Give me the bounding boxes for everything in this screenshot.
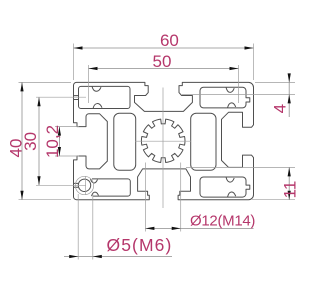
profile outer contour with T-slots (74, 82, 254, 199)
thin lines: centerlines (75, 88, 191, 209)
10.2 (58, 127, 61, 136)
bore centerlines (135, 140, 191, 142)
50 ext (88, 65, 90, 103)
dim line 40 (21, 82, 23, 199)
svg-text:Ø12(M14): Ø12(M14) (190, 212, 255, 229)
cavity C top-right with thread notch (200, 87, 250, 108)
svg-text:Ø5(M6): Ø5(M6) (107, 235, 173, 255)
cavity D bottom-right with thread notch (200, 177, 250, 197)
40 ext (19, 81, 72, 83)
keyway slit A (74, 96, 79, 100)
dim line 11 (288, 167, 290, 199)
cavity B bottom-left screw channel (78, 179, 90, 191)
svg-text:60: 60 (160, 31, 179, 50)
M6 thread circle bottom-left (75, 176, 93, 194)
10.2 ext (55, 126, 79, 128)
30 (37, 97, 40, 106)
11 ext (186, 166, 295, 168)
svg-text:11: 11 (281, 181, 300, 199)
dim line 50 (89, 68, 239, 70)
keyway slit B (74, 183, 79, 187)
arrows (20, 46, 290, 258)
left tall cavity (114, 113, 136, 170)
central bore M14 castellated (141, 119, 185, 162)
dim line O5(M6) (64, 256, 172, 258)
dim line 30 (38, 97, 40, 185)
boss centerline B vertical (85, 176, 87, 195)
50 (89, 67, 98, 70)
svg-text:50: 50 (153, 52, 172, 71)
4 outside (288, 73, 291, 82)
30 ext (36, 96, 86, 98)
svg-text:10,2: 10,2 (43, 125, 62, 158)
dim line 60 (74, 47, 254, 49)
4 ext (255, 81, 295, 83)
cavity A top-left screw channel (79, 86, 131, 108)
dimension: extension lines (thin gray) (19, 44, 296, 260)
O12 ext (144, 163, 146, 232)
svg-text:30: 30 (21, 132, 40, 151)
O12 inside pointing out (145, 227, 154, 230)
dim line O12(M14) (145, 227, 253, 229)
40 (20, 82, 23, 91)
60 ext (73, 44, 75, 81)
O5 outside (69, 255, 78, 258)
svg-text:4: 4 (271, 104, 290, 113)
60 (74, 46, 83, 49)
right tall cavity (191, 113, 216, 170)
11 (288, 167, 291, 176)
dim line 4 (288, 74, 290, 117)
dim line 10.2 (58, 127, 60, 156)
O5 ext (77, 194, 79, 260)
